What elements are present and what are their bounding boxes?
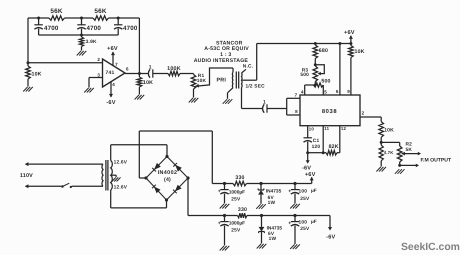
wire T1 sec tap to +6V bus — [242, 44, 256, 81]
wire pin 11 — [323, 126, 329, 153]
capacitor coupling C (8038 in) — [263, 99, 268, 112]
node O (R2 bottom) — [398, 164, 401, 167]
resistor 330 (-rail) — [238, 207, 248, 218]
node +rail zener — [259, 182, 262, 185]
resistor 56K (right) — [93, 8, 109, 20]
svg-text:IN4735: IN4735 — [267, 226, 283, 232]
switch S1 — [61, 183, 103, 188]
svg-text:100: 100 — [299, 220, 308, 226]
svg-text:6V: 6V — [268, 231, 275, 237]
svg-text:10K: 10K — [355, 49, 365, 55]
node -rail 1000uF — [223, 214, 226, 217]
svg-text:+6V: +6V — [344, 30, 355, 36]
node +rail 100uF — [293, 182, 296, 185]
node C (right cap tap) — [117, 17, 120, 20]
node K (pin4/500 junction) — [314, 84, 317, 87]
label 110V — [20, 173, 33, 179]
potentiometer R1 10K — [191, 73, 206, 97]
ground (4.7K) — [376, 167, 386, 172]
svg-text:4700: 4700 — [44, 25, 59, 32]
svg-text:C1: C1 — [313, 138, 320, 144]
wire C1 to pin11 — [308, 152, 324, 154]
capacitor 100uF 25V (+rail) — [288, 184, 317, 204]
wire pin 4 — [301, 85, 315, 95]
svg-text:1: 1 — [149, 64, 152, 70]
node bridge bottom — [165, 198, 168, 201]
wire N.C. stub — [242, 64, 254, 74]
svg-text:+: + — [218, 220, 221, 226]
resistor 10K (input) — [26, 63, 42, 87]
wiper R3 loop — [315, 65, 324, 76]
label PRI — [217, 78, 227, 84]
svg-text:25V: 25V — [300, 226, 310, 232]
label 12.6V bottom — [114, 184, 128, 190]
transformer T2 core — [106, 160, 108, 191]
svg-text:µF: µF — [311, 188, 317, 194]
resistor 330 (+rail) — [233, 175, 247, 186]
ground (3.9K) — [77, 51, 87, 56]
svg-text:10: 10 — [309, 126, 315, 131]
resistor 82K (pin12) — [323, 126, 346, 155]
svg-text:10K: 10K — [32, 72, 42, 78]
label 12.6V top — [114, 159, 128, 165]
resistor 10K (pin9) — [347, 44, 364, 96]
svg-text:741: 741 — [106, 70, 115, 76]
svg-text:56K: 56K — [94, 8, 107, 15]
label IN4002 — [158, 170, 178, 183]
transformer T1 primary — [231, 68, 234, 88]
svg-text:25V: 25V — [231, 227, 241, 233]
svg-text:12: 12 — [341, 126, 347, 131]
svg-text:5K: 5K — [406, 147, 413, 153]
-6V supply (8038) — [302, 153, 311, 172]
resistor 4.7K — [379, 142, 393, 166]
svg-text:1W: 1W — [269, 236, 277, 242]
svg-text:10K: 10K — [143, 80, 153, 86]
svg-text:6: 6 — [336, 89, 339, 94]
wire left input vertical — [27, 18, 29, 63]
capacitor coupling C (op-amp out) — [148, 64, 153, 77]
svg-text:56K: 56K — [50, 8, 63, 15]
bridge rectifier IN4002 frame — [146, 157, 188, 201]
svg-text:100K: 100K — [167, 66, 181, 72]
wiper R1 — [195, 68, 233, 88]
svg-text:7: 7 — [295, 92, 298, 97]
+6V supply op-amp pin7 — [107, 46, 118, 67]
node E (op-amp input) — [27, 61, 30, 64]
svg-text:12.6V: 12.6V — [114, 184, 128, 190]
wire +6V rail — [212, 183, 311, 185]
wire T1 sec bottom — [242, 88, 263, 109]
svg-text:11: 11 — [324, 126, 329, 131]
wire cap bottom bus — [39, 34, 119, 36]
node H (pin6 tap) — [338, 42, 341, 45]
svg-text:IN4735: IN4735 — [266, 189, 282, 195]
wire to R2 — [381, 141, 400, 143]
transformer T2 secondary — [111, 161, 113, 191]
svg-text:12.6V: 12.6V — [114, 159, 128, 165]
svg-text:9: 9 — [347, 89, 350, 94]
transformer T1 core — [236, 72, 238, 89]
capacitor 4700 (mid) — [77, 18, 101, 35]
svg-text:2: 2 — [362, 110, 365, 115]
transformer T2 primary — [102, 164, 103, 186]
wire T1 primary to ground — [228, 88, 234, 99]
+6V supply (8038) — [344, 30, 355, 43]
svg-text:4: 4 — [301, 89, 304, 94]
IC U2 8038 — [300, 95, 360, 126]
ground (+rail 1000uF) — [220, 204, 230, 209]
node G (680 tap) — [314, 42, 317, 45]
ground (+rail zener) — [256, 204, 266, 209]
svg-text:µF: µF — [311, 219, 317, 225]
node F (output) — [138, 72, 141, 75]
capacitor 1000uF 25V (-rail) — [218, 216, 245, 246]
resistor 500 (pins 4-5) — [314, 79, 331, 95]
svg-text:F.M OUTPUT: F.M OUTPUT — [421, 158, 452, 164]
resistor 680 — [313, 44, 328, 65]
svg-text:4700: 4700 — [87, 25, 102, 32]
label STANCOR block — [194, 40, 250, 64]
node A (left cap tap) — [37, 17, 40, 20]
ground (-rail zener) — [257, 244, 267, 249]
svg-text:25V: 25V — [231, 196, 241, 202]
svg-text:10K: 10K — [384, 127, 394, 133]
svg-text:120: 120 — [312, 144, 321, 150]
wire output return — [400, 164, 419, 168]
-6V supply op-amp pin4 — [106, 82, 115, 106]
svg-text:10K: 10K — [197, 78, 207, 84]
svg-text:2: 2 — [97, 57, 100, 62]
svg-text:4700: 4700 — [123, 25, 138, 32]
ground (input 10K) — [23, 87, 33, 92]
svg-text:(4): (4) — [164, 177, 171, 183]
wire R3 to pin4 junction — [314, 82, 316, 86]
ground (output 10K) — [135, 95, 145, 100]
capacitor 4700 (left) — [34, 18, 59, 35]
wire pin 2 output — [360, 110, 381, 121]
svg-text:1W: 1W — [268, 200, 276, 206]
node -rail zener — [260, 214, 263, 217]
svg-text:110V: 110V — [20, 173, 33, 179]
svg-text:4.7K: 4.7K — [384, 150, 394, 155]
ground (op-amp pin3) — [84, 88, 94, 93]
svg-text:500: 500 — [300, 72, 309, 78]
resistor 10K (output) — [379, 122, 394, 138]
wire feedback vertical — [138, 18, 140, 74]
resistor 10K (output load) — [137, 74, 153, 95]
svg-text:5: 5 — [324, 90, 327, 95]
svg-text:330: 330 — [238, 207, 247, 213]
wire pin7/8 bracket — [287, 92, 300, 115]
-6V supply tap — [326, 216, 335, 241]
diode D1 (T to L) — [152, 163, 161, 172]
wire cap to pins 7/8 — [267, 108, 287, 110]
svg-text:100: 100 — [299, 189, 308, 195]
ground (R2) — [395, 169, 405, 174]
wire pin2 input — [28, 57, 103, 63]
wire op-amp output — [125, 67, 148, 74]
wire bridge - to rail — [188, 178, 330, 216]
svg-text:1: 1 — [263, 99, 266, 105]
ground (R1) — [189, 98, 199, 103]
node B (mid cap tap) — [80, 17, 83, 20]
node -rail 100uF — [293, 214, 296, 217]
node N (divider) — [380, 137, 383, 144]
wire secondary top to bridge — [111, 145, 167, 161]
node D (3.9K tap) — [80, 34, 83, 37]
svg-text:680: 680 — [319, 48, 328, 54]
svg-text:-6V: -6V — [106, 100, 115, 106]
wire pin3 to ground — [89, 72, 103, 87]
svg-text:3.9K: 3.9K — [86, 39, 97, 45]
svg-text:+: + — [218, 188, 221, 194]
resistor 3.9K — [79, 35, 97, 51]
node J (R3 top) — [314, 63, 317, 66]
diode D4 (R to B) — [173, 185, 182, 194]
node +rail 1000uF — [223, 182, 226, 185]
node L (C1 bottom) — [306, 151, 309, 154]
svg-text:N.C.: N.C. — [243, 64, 253, 70]
svg-text:1000µF: 1000µF — [229, 190, 245, 196]
ground (+rail 100uF) — [290, 204, 300, 209]
wire 110V line bottom — [25, 184, 62, 188]
wire +6V bus — [257, 43, 351, 45]
watermark SeekIC.com — [401, 242, 460, 253]
ground (-rail 1000uF) — [220, 246, 230, 251]
wire pin 10 / capacitor C1 120 — [304, 126, 321, 153]
svg-text:8: 8 — [295, 109, 298, 114]
svg-text:+6V: +6V — [107, 46, 118, 52]
label FM OUTPUT — [421, 158, 452, 164]
svg-text:+6V: +6V — [305, 172, 316, 178]
ground (-rail 100uF) — [290, 244, 300, 249]
svg-text:-6V: -6V — [326, 235, 335, 241]
svg-text:330: 330 — [235, 175, 244, 181]
resistor 56K (left) — [49, 8, 65, 20]
ground (T1 primary) — [223, 99, 233, 104]
node M (pin11 bottom) — [322, 151, 325, 154]
svg-text:+: + — [288, 188, 291, 194]
transformer T1 secondary — [241, 73, 244, 88]
svg-text:8038: 8038 — [322, 108, 337, 115]
wire 110V line top — [25, 162, 103, 166]
svg-text:PRI: PRI — [217, 78, 227, 84]
resistor 100K — [153, 66, 194, 76]
capacitor 1000uF 25V (+rail) — [218, 184, 245, 204]
zener IN4735 6V 1W (-rail) — [259, 216, 283, 244]
svg-text:82K: 82K — [329, 144, 339, 150]
wiper R2 / output — [402, 152, 421, 156]
svg-text:500: 500 — [321, 79, 330, 85]
svg-text:-6V: -6V — [302, 165, 311, 171]
wire top bus — [28, 17, 139, 19]
svg-text:4: 4 — [112, 82, 115, 87]
node bridge top — [165, 155, 168, 158]
op-amp U1 741 — [103, 59, 126, 87]
label 1/2 SEC — [246, 84, 266, 90]
capacitor 4700 (right) — [114, 18, 138, 35]
potentiometer R3 500 — [300, 66, 317, 82]
wire center tap — [111, 175, 117, 177]
svg-text:R2: R2 — [406, 142, 413, 148]
wire pin 6 — [336, 44, 340, 96]
node I (+6V tap) — [349, 42, 352, 45]
capacitor 100uF 25V (-rail) — [288, 216, 317, 245]
wire bridge + to rail — [139, 131, 212, 184]
node bridge right — [186, 176, 189, 179]
zener IN4735 6V 1W (+rail) — [258, 184, 282, 207]
svg-text:1/2 SEC: 1/2 SEC — [246, 84, 266, 90]
+6V supply (rail tap) — [305, 172, 316, 184]
svg-text:3: 3 — [97, 72, 100, 77]
diode D3 (R to T) — [173, 163, 182, 172]
potentiometer R2 5K — [397, 142, 412, 166]
wire secondary bottom to bridge — [111, 190, 167, 208]
svg-text:7: 7 — [115, 62, 118, 67]
svg-text:AUDIO INTERSTAGE: AUDIO INTERSTAGE — [194, 58, 249, 64]
svg-text:6: 6 — [126, 67, 129, 72]
svg-text:25V: 25V — [300, 196, 310, 202]
svg-text:+: + — [288, 220, 291, 226]
ground (center tap) — [112, 177, 121, 181]
svg-text:1000µF: 1000µF — [229, 221, 245, 227]
svg-text:SeekIC.com: SeekIC.com — [401, 242, 460, 253]
svg-text:IN4002: IN4002 — [158, 170, 178, 176]
diode D2 (B to L) — [152, 185, 160, 194]
node bridge left — [144, 176, 147, 179]
